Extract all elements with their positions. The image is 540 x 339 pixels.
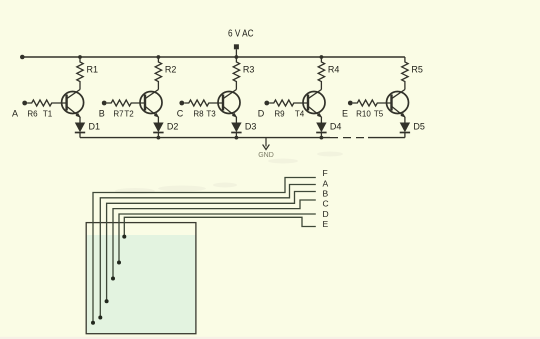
svg-text:R10: R10 [356, 110, 371, 119]
svg-text:T4: T4 [295, 110, 305, 119]
resistor R6 [27, 100, 67, 119]
wire probe lead B [105, 189, 329, 304]
svg-text:B: B [99, 109, 105, 119]
wire bottom rail dashed section [330, 137, 368, 139]
svg-text:D: D [323, 209, 329, 219]
svg-text:D4: D4 [330, 122, 342, 132]
node E input terminal [342, 101, 353, 119]
resistor R2 [155, 57, 176, 90]
node junction bottom rail at D3 [235, 136, 239, 140]
resistor R5 [402, 57, 423, 90]
svg-text:R6: R6 [27, 110, 38, 119]
wire probe lead D [117, 209, 329, 265]
diode D5 [400, 117, 425, 138]
svg-text:E: E [342, 109, 348, 119]
node junction bottom rail at D4 [320, 136, 324, 140]
resistor R10 [353, 100, 392, 119]
wire probe lead C [111, 199, 329, 281]
resistor R8 [184, 100, 223, 119]
svg-text:R8: R8 [193, 110, 204, 119]
resistor R3 [233, 57, 254, 90]
transistor T4 [295, 90, 325, 119]
diode D1 [75, 117, 100, 138]
node junction top rail at R2 [157, 55, 161, 59]
svg-text:R4: R4 [328, 65, 340, 75]
svg-text:T2: T2 [124, 110, 134, 119]
svg-text:T1: T1 [43, 110, 53, 119]
wire bottom rail right section [368, 137, 405, 139]
svg-text:D5: D5 [413, 122, 425, 132]
resistor R1 [77, 57, 98, 90]
diode D4 [316, 117, 341, 138]
svg-text:F: F [323, 168, 328, 178]
node B input terminal [99, 101, 107, 119]
water tank [86, 223, 196, 334]
wire top supply rail [22, 56, 405, 58]
svg-text:R2: R2 [165, 65, 177, 75]
svg-text:E: E [323, 219, 329, 229]
node junction top rail at R1 [78, 55, 82, 59]
transistor T5 [374, 90, 409, 119]
svg-text:D1: D1 [89, 122, 101, 132]
node junction bottom rail at D2 [157, 136, 161, 140]
diode D2 [153, 117, 178, 138]
svg-text:R7: R7 [113, 110, 124, 119]
svg-text:B: B [323, 189, 329, 199]
svg-text:T5: T5 [374, 110, 384, 119]
resistor R7 [107, 100, 145, 119]
wire probe lead F [91, 168, 328, 325]
svg-text:C: C [177, 109, 184, 119]
transistor T1 [43, 90, 84, 119]
transistor T3 [206, 90, 240, 119]
node C input terminal [177, 101, 184, 119]
svg-text:C: C [323, 199, 329, 209]
svg-text:T3: T3 [206, 110, 216, 119]
wire bottom rail solid section [80, 137, 330, 139]
svg-text:A: A [323, 179, 329, 189]
diode D3 [231, 117, 256, 138]
node A input terminal [12, 101, 27, 119]
node junction top rail at R3 [235, 55, 239, 59]
svg-text:A: A [12, 109, 18, 119]
decorative [115, 152, 343, 195]
svg-text:R1: R1 [87, 65, 99, 75]
node left end of top rail [20, 55, 25, 60]
node junction top rail at R4 [320, 55, 324, 59]
ground GND [258, 138, 274, 159]
svg-text:6 V AC: 6 V AC [228, 29, 254, 40]
wire probe lead E [122, 217, 328, 238]
resistor R4 [318, 57, 339, 90]
svg-text:R5: R5 [411, 65, 423, 75]
svg-text:R9: R9 [274, 110, 285, 119]
wire probe lead A [98, 179, 328, 320]
svg-text:R3: R3 [243, 65, 255, 75]
decorative [0, 337, 540, 339]
svg-text:D: D [258, 109, 265, 119]
6 V AC supply terminal [228, 29, 254, 58]
transistor T2 [124, 90, 162, 119]
svg-text:GND: GND [258, 152, 274, 159]
svg-text:D3: D3 [245, 122, 257, 132]
svg-text:D2: D2 [167, 122, 179, 132]
node D input terminal [258, 101, 269, 119]
resistor R9 [269, 100, 308, 119]
